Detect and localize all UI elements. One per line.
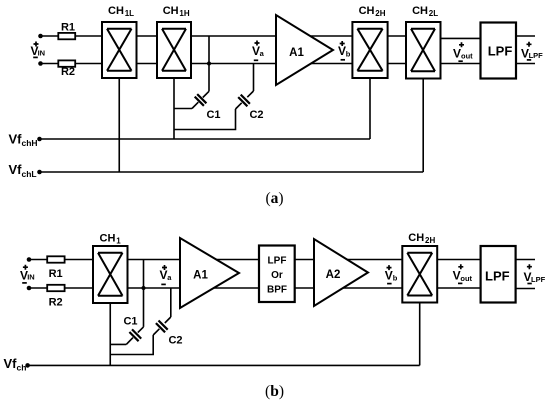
svg-text:CH: CH: [412, 5, 428, 17]
chopper CH1H: [157, 22, 191, 78]
minus sign VIN (a): [33, 56, 38, 58]
wire CH1L to CH1H bottom: [137, 63, 158, 65]
svg-text:out: out: [460, 274, 472, 283]
label LPF Or BPF: [267, 256, 287, 296]
wire R2 to CH1 (b): [65, 287, 93, 289]
svg-text:chL: chL: [22, 169, 37, 179]
label VfchH: [9, 132, 38, 149]
label Vb (a): [338, 44, 351, 59]
svg-text:A2: A2: [326, 269, 341, 281]
filter LPF/Or/BPF box: [259, 246, 295, 303]
capacitor C2 (b): [153, 317, 171, 335]
wire CH1L to CH1H top: [137, 35, 158, 37]
resistor R1 (b): [47, 256, 64, 262]
wire C2 bottom lead elbow (b): [110, 335, 153, 355]
resistor R2 (b): [47, 285, 64, 291]
resistor R2: [58, 60, 75, 66]
label CH1L: [108, 5, 134, 18]
plus sign Vb (b): [387, 265, 392, 270]
plus sign VLPF (a): [527, 42, 532, 47]
svg-text:C1: C1: [206, 109, 220, 121]
minus sign VIN (b): [22, 282, 27, 284]
label Vout (a): [453, 46, 473, 60]
svg-text:C2: C2: [168, 335, 182, 347]
svg-text:Vf: Vf: [9, 162, 23, 177]
minus sign Vout (a): [458, 60, 462, 62]
svg-text:a: a: [260, 49, 265, 58]
op-amp A1 (a): [276, 15, 333, 85]
minus sign Va (b): [161, 283, 166, 285]
filter LPF (a): [481, 23, 517, 79]
node VfchH terminal dot: [37, 137, 42, 142]
chopper CH2H: [352, 22, 387, 78]
wire box to A2 top rail: [295, 259, 403, 261]
wire CH1 to LPF/BPF box top rail (b): [128, 259, 260, 261]
wire C2 bottom lead elbow: [174, 109, 236, 130]
label VLPF (a): [521, 47, 543, 61]
wire CH2H to LPF top (b): [437, 259, 480, 261]
wire R1 to CH1L: [75, 35, 102, 37]
plus sign VIN (a): [34, 42, 39, 47]
wire CH1L control: [118, 78, 120, 172]
plus sign VIN (b): [23, 265, 28, 270]
svg-text:2H: 2H: [425, 236, 435, 245]
label VIN (a): [30, 44, 45, 58]
label CH1 (b): [100, 233, 122, 246]
minus sign Vout (b): [458, 282, 462, 284]
svg-text:R1: R1: [61, 22, 75, 34]
svg-text:R2: R2: [49, 296, 63, 308]
svg-text:1H: 1H: [179, 9, 189, 18]
svg-text:Vf: Vf: [9, 132, 23, 147]
svg-text:A1: A1: [193, 270, 208, 282]
svg-text:R2: R2: [61, 66, 75, 78]
label VfchL: [9, 162, 37, 179]
svg-text:IN: IN: [27, 273, 35, 282]
plus sign Vout (b): [458, 264, 463, 269]
svg-text:1: 1: [116, 237, 121, 246]
svg-text:a: a: [167, 273, 172, 282]
node VIN+ terminal dot (a): [38, 34, 43, 39]
minus sign VLPF (a): [527, 59, 531, 61]
minus sign VLPF (b): [527, 283, 531, 285]
svg-text:CH: CH: [359, 5, 375, 17]
wire LPF output stub bottom (a): [516, 63, 535, 65]
svg-text:b: b: [346, 50, 351, 59]
plus sign VLPF (b): [527, 264, 532, 269]
wire CH1 to LPF/BPF box bottom rail (b): [128, 287, 260, 289]
op-amp A2: [314, 239, 368, 306]
svg-text:CH: CH: [408, 232, 424, 244]
capacitor C2: [236, 91, 254, 109]
op-amp A1 (b): [180, 238, 239, 308]
svg-text:Vf: Vf: [4, 356, 18, 371]
chopper CH2H (b): [402, 246, 437, 303]
wire VIN- to R2 (b): [29, 287, 47, 289]
wire CH2L to LPF bottom: [441, 63, 481, 65]
plus sign Vb: [340, 41, 345, 46]
wire C1 bottom lead horizontal: [174, 108, 192, 110]
node VfchL terminal dot: [37, 170, 42, 175]
wire LPF output stub top (b): [516, 259, 535, 261]
chopper CH1L: [102, 22, 137, 78]
wire CH1 control (b): [109, 303, 111, 365]
svg-text:C1: C1: [123, 316, 137, 328]
svg-text:LPF: LPF: [531, 275, 546, 284]
node Vfch terminal dot: [25, 363, 30, 368]
capacitor C1 (b): [126, 327, 143, 345]
svg-text:C2: C2: [249, 109, 263, 121]
svg-text:LPF: LPF: [529, 51, 544, 60]
wire C1 top lead vertical (b): [143, 260, 145, 327]
svg-text:CH: CH: [163, 5, 179, 17]
minus sign Va: [254, 59, 258, 61]
wire R1 to CH1 (b): [65, 259, 93, 261]
node junction dot C1/bottom rail: [207, 62, 211, 66]
wire CH2L control: [422, 79, 424, 173]
wire Vfch line: [28, 364, 420, 366]
label CH1H: [163, 5, 190, 18]
wire R2 to CH1L: [75, 63, 102, 65]
svg-text:V: V: [338, 44, 346, 58]
wire C2 top lead vertical: [253, 64, 255, 92]
wire CH2H control (b): [419, 303, 421, 366]
wire VfchL line: [40, 171, 424, 173]
label Vout (b): [453, 269, 473, 283]
resistor R1: [58, 33, 75, 39]
filter LPF (b): [481, 246, 516, 303]
svg-text:(b): (b): [265, 383, 284, 400]
node VIN- terminal dot (a): [38, 61, 43, 66]
chopper CH2L: [406, 22, 441, 79]
chopper CH1 (b): [93, 246, 128, 303]
node VIN+ terminal dot (b): [27, 257, 32, 262]
svg-text:1L: 1L: [125, 9, 134, 18]
wire box to A2 bottom rail: [295, 287, 403, 289]
wire VIN+ to R1 (b): [29, 259, 47, 261]
svg-text:A1: A1: [289, 47, 304, 59]
wire CH1H to CH2H top rail: [191, 35, 352, 37]
node junction dot C1/bottom rail (b): [142, 286, 146, 290]
label CH2H (b): [408, 232, 435, 245]
svg-text:2H: 2H: [375, 9, 385, 18]
label Vb (b): [385, 268, 398, 282]
wire VIN+ to R1: [41, 35, 59, 37]
label VIN (b): [20, 268, 35, 282]
wire LPF output stub bottom (b): [516, 288, 535, 290]
wire CH2H to CH2L top: [388, 35, 406, 37]
svg-text:R1: R1: [49, 268, 63, 280]
svg-text:chH: chH: [22, 138, 38, 148]
wire VIN- to R2: [41, 63, 59, 65]
svg-text:out: out: [461, 52, 473, 61]
wire CH2H control: [369, 78, 371, 139]
svg-text:LPF: LPF: [268, 256, 287, 267]
svg-text:CH: CH: [108, 5, 124, 17]
wire CH1H to CH2H bottom rail: [191, 63, 352, 65]
label Vfch: [4, 356, 27, 373]
svg-text:(a): (a): [265, 190, 283, 207]
wire CH2H to LPF bottom (b): [437, 287, 480, 289]
svg-text:LPF: LPF: [488, 44, 513, 59]
svg-text:ch: ch: [17, 363, 27, 373]
minus sign Vb: [341, 59, 345, 61]
wire LPF output stub top (a): [516, 35, 535, 37]
wire CH2H to CH2L bottom: [388, 63, 406, 65]
wire C2 top lead vertical (b): [170, 288, 172, 317]
wire CH2L to LPF top: [441, 37, 481, 39]
label VLPF (b): [523, 270, 545, 284]
svg-text:BPF: BPF: [267, 285, 287, 296]
plus sign Va (b): [162, 265, 167, 270]
svg-text:LPF: LPF: [485, 268, 510, 283]
svg-text:V: V: [453, 46, 461, 60]
svg-text:CH: CH: [100, 233, 116, 245]
plus sign Vout (a): [459, 42, 464, 47]
minus sign Vb (b): [387, 283, 392, 285]
wire C1 bottom lead horizontal (b): [110, 343, 126, 345]
wire VfchH line: [40, 138, 371, 140]
svg-text:2L: 2L: [429, 9, 438, 18]
svg-text:Or: Or: [271, 270, 283, 281]
svg-text:IN: IN: [38, 48, 46, 57]
label CH2H (a): [359, 5, 386, 18]
label Va (b): [159, 268, 172, 282]
node VIN- terminal dot (b): [27, 286, 32, 291]
svg-text:b: b: [393, 274, 398, 283]
svg-text:V: V: [453, 269, 461, 283]
svg-text:V: V: [385, 268, 393, 282]
wire C1 top lead vertical: [208, 36, 210, 91]
wire CH1H control: [173, 78, 175, 139]
plus sign Va: [255, 41, 260, 46]
capacitor C1: [192, 91, 209, 108]
label Va (a): [252, 44, 265, 58]
label CH2L: [412, 5, 438, 18]
